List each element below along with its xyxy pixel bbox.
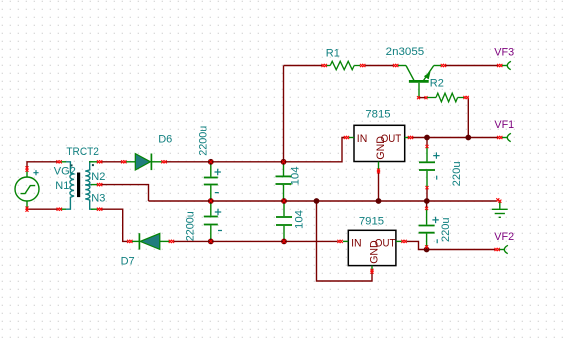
ac source VG2 xyxy=(15,171,39,207)
svg-text:IN: IN xyxy=(351,237,362,249)
svg-text:2200u: 2200u xyxy=(197,126,209,156)
x 7915 OUT pin xyxy=(401,240,404,243)
svg-text:GND: GND xyxy=(369,240,381,264)
transformer core xyxy=(77,173,80,198)
x source top pin xyxy=(26,166,29,169)
x C1 top pin xyxy=(209,160,213,164)
wire R2 right down to OUT rail xyxy=(467,98,469,138)
svg-text:R2: R2 xyxy=(430,78,444,90)
svg-text:D7: D7 xyxy=(121,256,135,268)
x 7815 IN pin xyxy=(344,136,347,139)
connector VF2 xyxy=(499,245,508,253)
svg-text:TRCT2: TRCT2 xyxy=(66,146,99,158)
svg-text:2200u: 2200u xyxy=(184,211,196,241)
svg-text:220u: 220u xyxy=(451,161,463,186)
capacitor C2 polarity xyxy=(215,209,222,231)
capacitor C1 2200u xyxy=(204,163,218,200)
node mid rail x427 xyxy=(424,198,430,204)
node D6 rail x283 xyxy=(281,159,287,165)
x 7815 GND pin xyxy=(377,169,380,172)
svg-text:104: 104 xyxy=(290,166,302,185)
svg-text:VF1: VF1 xyxy=(494,119,514,131)
diode D7 xyxy=(132,233,170,249)
wire C5 bottom stub xyxy=(426,189,428,201)
x C5 bottom pin xyxy=(426,186,429,189)
x primary bottom pin xyxy=(57,208,60,211)
svg-text:7915: 7915 xyxy=(359,215,384,227)
x primary top pin xyxy=(56,160,59,163)
wire emitter to R2 xyxy=(419,97,425,99)
resistor R2 xyxy=(427,93,464,102)
x C4 bottom pin xyxy=(282,239,286,243)
ground symbol xyxy=(492,201,508,218)
resistor R1 xyxy=(326,61,360,69)
regulator U1 7815 box xyxy=(349,125,409,169)
wire C6 top stub xyxy=(426,202,428,208)
svg-text:VF2: VF2 xyxy=(494,231,514,243)
ac source plus polarity xyxy=(33,170,38,175)
capacitor C1 polarity xyxy=(215,169,221,193)
wire R1 left horizontal xyxy=(284,65,323,67)
diode D6 xyxy=(126,154,162,171)
wire source bottom to transformer xyxy=(27,208,57,209)
transistor Q1 2n3055 xyxy=(398,66,441,98)
capacitor C5 220u xyxy=(419,148,435,187)
x source bottom pin xyxy=(26,207,29,210)
wire center tap step xyxy=(101,185,148,201)
x C3 C4 junction pin xyxy=(282,199,286,203)
node D6 rail x210 xyxy=(208,159,214,165)
x transistor top right xyxy=(441,64,444,67)
wire N3 jog down to D7 xyxy=(101,209,127,241)
x emitter bottom xyxy=(417,96,420,99)
x D6 anode xyxy=(121,160,124,163)
x 7815 OUT pin xyxy=(408,136,411,139)
wire source top to transformer xyxy=(27,162,57,168)
svg-text:VF3: VF3 xyxy=(494,46,514,58)
node VF2 rail x427 xyxy=(424,247,430,253)
node D7 rail x210 xyxy=(208,239,214,245)
x C1 C2 junction pin xyxy=(209,199,213,203)
x 7915 IN pin xyxy=(337,240,340,243)
transistor emitter arrow xyxy=(424,72,431,80)
capacitor C6 polarity xyxy=(432,217,438,244)
x N3 bottom pin xyxy=(97,208,100,211)
x transistor collector xyxy=(393,64,396,67)
node mid rail x316 xyxy=(314,198,320,204)
svg-text:GND: GND xyxy=(375,136,387,160)
wire N2 to D6 anode xyxy=(101,161,121,163)
x R2 right xyxy=(463,96,466,99)
transformer secondary windings N2 N3 xyxy=(85,162,93,209)
node D7 rail x284 xyxy=(281,239,287,245)
svg-text:104: 104 xyxy=(293,210,305,229)
x ground pin xyxy=(496,198,499,201)
x VF2 pin xyxy=(495,248,498,251)
capacitor C3 104 xyxy=(276,163,292,200)
transformer polarity dot N2 xyxy=(92,164,94,166)
svg-text:R1: R1 xyxy=(326,47,340,59)
transformer secondary pin stubs xyxy=(89,162,97,209)
connector VF3 xyxy=(502,61,511,69)
wire R1 to transistor xyxy=(365,65,393,67)
node OUT rail x468 xyxy=(465,135,471,141)
svg-text:D6: D6 xyxy=(158,134,172,146)
wire 7815 OUT rail to VF1 xyxy=(412,137,497,139)
wire middle rail xyxy=(149,200,498,202)
wire 7915 OUT to VF2 xyxy=(406,241,495,249)
node mid rail x210 xyxy=(208,198,214,204)
x D7 anode jog xyxy=(127,240,130,243)
transformer polarity dot primary xyxy=(71,164,73,166)
svg-text:7815: 7815 xyxy=(365,109,390,121)
svg-text:IN: IN xyxy=(357,133,368,145)
x C6 bottom pin xyxy=(425,245,428,248)
x C6 top pin xyxy=(425,207,428,210)
svg-text:N2: N2 xyxy=(91,171,105,183)
svg-text:VG2: VG2 xyxy=(54,166,76,178)
svg-text:N3: N3 xyxy=(91,193,105,205)
x VF3 pin xyxy=(497,64,500,67)
x C3 top pin xyxy=(282,160,286,164)
svg-text:2n3055: 2n3055 xyxy=(386,46,425,58)
x D7 cathode xyxy=(169,240,172,243)
node mid rail x284 xyxy=(281,198,287,204)
wire C6 bottom stub xyxy=(426,248,428,250)
svg-text:N1: N1 xyxy=(55,180,69,192)
x C2 bottom pin xyxy=(209,239,213,243)
wire D6 cathode rail to 7815 IN xyxy=(166,138,344,162)
wire 7915 GND loop xyxy=(317,201,373,281)
x R1 left xyxy=(322,64,325,67)
wire D7 rail to 7915 IN xyxy=(174,240,338,242)
X MARKERS xyxy=(26,64,503,274)
capacitor C6 220u xyxy=(419,209,435,246)
connector VF1 xyxy=(502,133,511,141)
x VF1 pin xyxy=(497,136,500,139)
x center tap pin xyxy=(97,183,100,186)
wire C5 top stub xyxy=(426,138,428,145)
capacitor C5 polarity xyxy=(433,152,439,179)
x R1 right xyxy=(360,64,363,67)
x C5 top pin xyxy=(426,145,429,148)
capacitor C2 2200u xyxy=(204,202,218,240)
node mid rail x378 xyxy=(376,198,382,204)
svg-text:220u: 220u xyxy=(440,218,452,243)
x N2 top pin xyxy=(97,160,100,163)
x 7915 GND pin xyxy=(371,269,374,272)
JUNCTION DOTS xyxy=(208,135,471,253)
capacitor C4 104 xyxy=(276,202,292,240)
transformer primary pin stubs xyxy=(61,162,66,209)
wire 7815 GND down xyxy=(378,172,380,201)
wire transistor to VF3 xyxy=(445,65,497,67)
wire R1 branch vertical xyxy=(283,66,285,162)
x D6 cathode xyxy=(161,160,164,163)
regulator U2 7915 box xyxy=(343,230,402,269)
node OUT rail x427 xyxy=(424,135,430,141)
transformer TRCT2 primary winding N1 xyxy=(66,162,74,209)
